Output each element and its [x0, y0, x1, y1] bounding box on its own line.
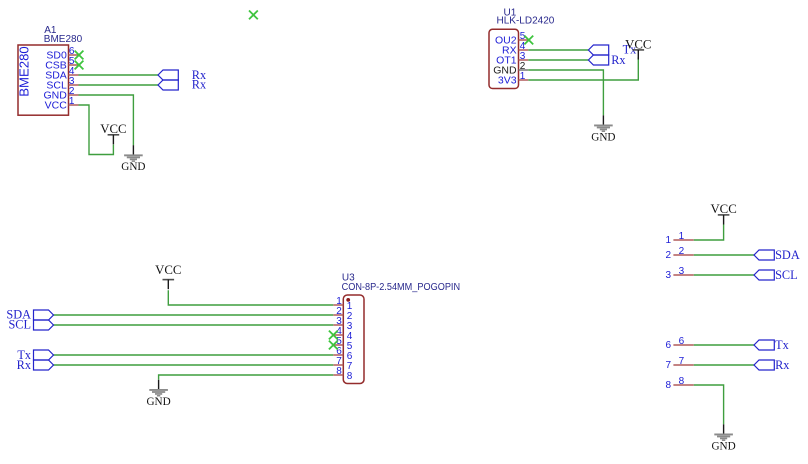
wire GND net from U3 pin 8 — [159, 375, 334, 380]
svg-text:HLK-LD2420: HLK-LD2420 — [497, 16, 555, 27]
net flag SDA right — [754, 250, 774, 260]
wire SDA net from right pin 2 — [694, 254, 754, 256]
wire Tx net from U1 pin 4 RX — [528, 49, 588, 51]
power symbol VCC below A1 — [100, 122, 126, 144]
wire VCC net from A1 pin 1 — [79, 105, 114, 155]
net flag SCL left — [34, 320, 54, 330]
component A1 value label BME280 — [44, 34, 83, 45]
svg-text:3: 3 — [679, 266, 685, 277]
net label Rx (upper) — [192, 68, 206, 82]
net label Tx right — [775, 338, 789, 352]
component U3 connector body outline — [343, 295, 364, 384]
svg-text:VCC: VCC — [100, 122, 126, 136]
pin 5 of U3 — [333, 336, 353, 352]
svg-text:VCC: VCC — [710, 202, 736, 216]
net label SDA right — [775, 248, 800, 262]
net label Rx right — [775, 358, 789, 372]
pin 4 of U3 — [333, 326, 353, 342]
wire VCC net from U1 pin 1 3V3 — [528, 57, 638, 80]
svg-text:3: 3 — [665, 270, 671, 281]
svg-text:BME280: BME280 — [17, 46, 32, 97]
net label Tx — [623, 42, 637, 56]
pin 1 of U3 — [333, 296, 353, 312]
pin 1 right-hand connector — [665, 231, 693, 246]
svg-text:1: 1 — [520, 71, 526, 82]
net flag Rx right — [754, 360, 774, 370]
net flag Tx right — [754, 340, 774, 350]
svg-text:8: 8 — [665, 380, 671, 391]
stray no-connect X marker top middle — [249, 11, 258, 20]
wire SDA net from A1 pin 4 to Rx flag — [79, 74, 159, 76]
component A1 BME280 reference label — [44, 25, 57, 36]
wire SCL net from flag to U3 pin 3 — [54, 324, 334, 326]
svg-text:GND: GND — [121, 161, 145, 173]
wire GND net from A1 pin 2 — [79, 95, 134, 145]
svg-text:Tx: Tx — [775, 338, 789, 352]
wire VCC net from right pin 1 — [694, 225, 724, 241]
net flag Tx left — [34, 350, 54, 360]
svg-text:SDA: SDA — [775, 248, 800, 262]
net label SCL left — [8, 318, 31, 332]
pin 2 GND of A1 — [43, 86, 78, 102]
pin 1 VCC of A1 — [45, 96, 79, 112]
no-connect X on A1 pin 5 CSB — [75, 61, 84, 70]
net label Rx left — [17, 358, 31, 372]
pin 2 GND of U1 — [493, 61, 528, 77]
svg-text:3V3: 3V3 — [498, 75, 517, 87]
svg-text:7: 7 — [665, 360, 671, 371]
wire Rx net from right pin 7 — [694, 364, 754, 366]
power symbol VCC above right pin 1 — [710, 202, 736, 225]
component U3 value label CON-8P-2.54MM_POGOPIN — [342, 282, 461, 293]
wire GND net from U1 pin 2 — [528, 70, 603, 115]
component U1 HLK-LD2420 body outline — [489, 29, 519, 88]
power symbol VCC above U1 wire — [625, 37, 651, 59]
pin 2 of U3 — [333, 306, 353, 322]
svg-text:VCC: VCC — [45, 100, 68, 112]
ground symbol GND below right pin 8 — [711, 424, 735, 452]
net flag Tx on U1 RX wire — [588, 45, 608, 55]
pin 3 of U3 — [333, 316, 353, 332]
component U1 reference label — [504, 8, 517, 19]
svg-text:GND: GND — [711, 440, 735, 452]
svg-text:1: 1 — [679, 231, 685, 242]
net flag Rx (lower) on SCL wire — [158, 80, 178, 90]
no-connect X on U3 pin 4 — [329, 331, 338, 340]
net label SDA left — [6, 308, 31, 322]
wire Tx net from right pin 6 — [694, 344, 754, 346]
svg-text:Rx: Rx — [192, 78, 206, 92]
ground symbol GND below U1 — [591, 115, 615, 143]
net flag Rx on U1 OT1 wire — [588, 55, 608, 65]
pin 8 of U3 — [333, 366, 353, 382]
wire GND net from right pin 8 — [694, 385, 724, 424]
net flag SCL right — [754, 270, 774, 280]
wire Rx net from flag to U3 pin 7 — [54, 364, 334, 366]
svg-text:8: 8 — [679, 376, 685, 387]
svg-text:2: 2 — [679, 246, 685, 257]
svg-text:BME280: BME280 — [44, 34, 83, 45]
svg-text:Rx: Rx — [775, 358, 789, 372]
svg-text:8: 8 — [336, 366, 342, 377]
pin 8 right-hand connector — [665, 376, 693, 391]
component U3 reference label — [342, 273, 355, 284]
net label Rx — [611, 53, 625, 67]
component U1 value label HLK-LD2420 — [497, 16, 555, 27]
pin 4 SDA of A1 — [45, 66, 78, 82]
svg-text:GND: GND — [146, 396, 170, 408]
pin 7 of U3 — [333, 356, 353, 372]
wire Rx net from U1 pin 3 OT1 — [528, 59, 588, 61]
wire SCL net from right pin 3 — [694, 274, 754, 276]
svg-text:VCC: VCC — [155, 263, 181, 277]
net flag Rx (upper) on SDA wire — [158, 70, 178, 80]
svg-text:7: 7 — [679, 356, 685, 367]
net label Tx left — [17, 348, 31, 362]
svg-text:2: 2 — [665, 250, 671, 261]
pin 3 right-hand connector — [665, 266, 693, 281]
pin 5 OU2 of U1 — [495, 31, 528, 47]
pin 2 right-hand connector — [665, 246, 693, 261]
svg-text:1: 1 — [665, 235, 671, 246]
pin 6 of U3 — [333, 346, 353, 362]
svg-text:1: 1 — [69, 96, 75, 107]
net label Rx (lower) — [192, 78, 206, 92]
svg-text:GND: GND — [591, 131, 615, 143]
pin 3 SCL of A1 — [46, 76, 78, 92]
ground symbol GND below A1 — [121, 145, 145, 173]
no-connect X on U3 pin 5 — [329, 341, 338, 350]
no-connect X on A1 pin 6 SD0 — [75, 51, 84, 60]
pin 4 RX of U1 — [502, 41, 528, 57]
no-connect X on U1 pin 5 OU2 — [524, 36, 533, 45]
svg-text:6: 6 — [679, 336, 685, 347]
wire Tx net from flag to U3 pin 6 — [54, 354, 334, 356]
svg-text:CON-8P-2.54MM_POGOPIN: CON-8P-2.54MM_POGOPIN — [342, 282, 461, 293]
svg-text:SCL: SCL — [8, 318, 31, 332]
svg-text:8: 8 — [347, 371, 353, 382]
svg-text:Rx: Rx — [17, 358, 31, 372]
pin 6 right-hand connector — [665, 336, 693, 351]
net flag SDA left — [34, 310, 54, 320]
wire SDA net from flag to U3 pin 2 — [54, 314, 334, 316]
svg-text:SCL: SCL — [775, 268, 798, 282]
pin 6 SD0 of A1 — [46, 46, 78, 62]
pin 5 CSB of A1 — [45, 56, 78, 72]
svg-text:6: 6 — [665, 340, 671, 351]
ground symbol GND below U3 pin 8 wire — [146, 380, 170, 408]
component A1 BME280 body outline — [17, 45, 69, 115]
power symbol VCC above U3 pin 1 wire — [155, 263, 181, 289]
pin 3 OT1 of U1 — [496, 51, 528, 67]
svg-text:Rx: Rx — [611, 53, 625, 67]
U3 pin 1 polarity dot — [346, 298, 350, 302]
wire SCL net from A1 pin 3 to Rx flag — [79, 84, 159, 86]
net label SCL right — [775, 268, 798, 282]
net flag Rx left — [34, 360, 54, 370]
wire VCC net to U3 pin 1 — [168, 290, 333, 305]
pin 1 3V3 of U1 — [498, 71, 528, 87]
pin 7 right-hand connector — [665, 356, 693, 371]
